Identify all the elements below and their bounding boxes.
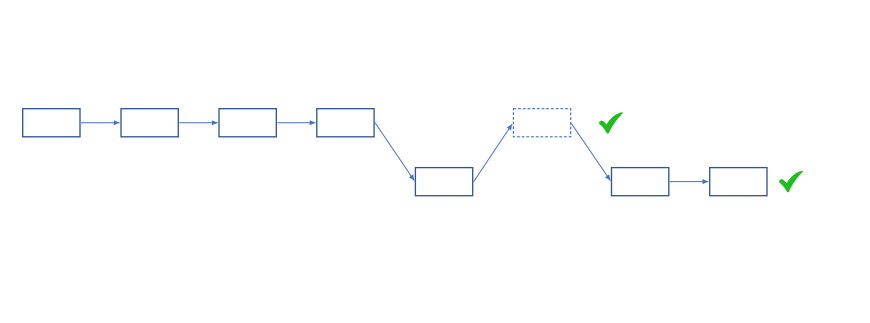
wire connector box6 to box7 (diagonal down) xyxy=(571,124,610,181)
box 7 xyxy=(612,168,669,196)
box 1 xyxy=(23,109,80,137)
wire connector box2 to box3 xyxy=(179,122,217,124)
wire connector box7 to box8 xyxy=(670,181,709,183)
wire connector box4 to box5 (diagonal down) xyxy=(375,123,414,181)
box 5 xyxy=(415,168,472,196)
box 8 xyxy=(710,168,767,196)
box 2 xyxy=(121,109,178,137)
box 4 xyxy=(317,109,374,137)
checkmark 2 (green, beside box 8) xyxy=(779,171,803,192)
wire connector box1 to box2 xyxy=(81,122,120,124)
checkmark 1 (green, beside dashed box 6) xyxy=(599,112,623,133)
wire connector box5 to box6 (diagonal up) xyxy=(474,124,512,182)
wire connector box3 to box4 xyxy=(277,122,315,124)
box 3 xyxy=(219,109,276,137)
box 6 (dashed) xyxy=(513,109,570,137)
